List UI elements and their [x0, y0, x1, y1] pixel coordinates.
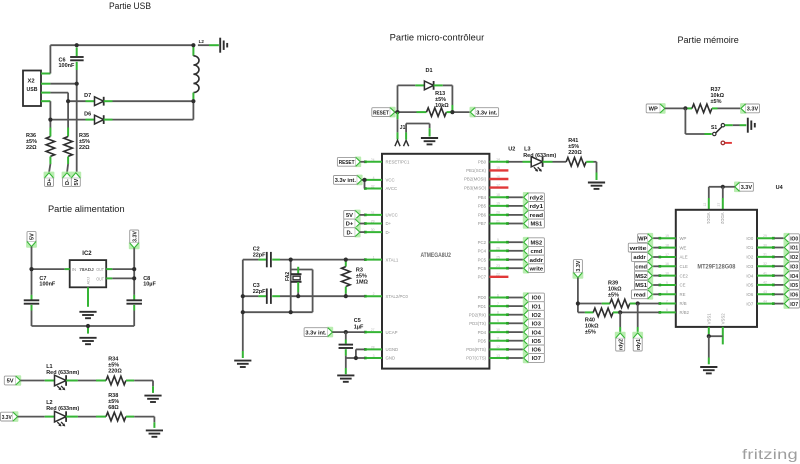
- svg-text:Red (633nm): Red (633nm): [46, 406, 79, 412]
- svg-text:29: 29: [763, 234, 767, 238]
- svg-text:IO4: IO4: [532, 330, 542, 336]
- svg-text:RE: RE: [680, 292, 686, 297]
- svg-text:ALE: ALE: [680, 255, 688, 260]
- svg-text:13: 13: [496, 354, 500, 358]
- svg-text:3.3V: 3.3V: [747, 107, 759, 113]
- svg-text:±5%: ±5%: [711, 99, 722, 105]
- svg-text:3.3v int.: 3.3v int.: [476, 110, 498, 116]
- svg-text:Partie micro-contrôleur: Partie micro-contrôleur: [390, 33, 485, 43]
- svg-text:5V: 5V: [7, 379, 14, 385]
- svg-text:8: 8: [497, 311, 499, 315]
- svg-text:28: 28: [371, 345, 375, 349]
- svg-text:IO1: IO1: [532, 304, 541, 310]
- svg-text:D7: D7: [84, 93, 91, 99]
- svg-text:IO0: IO0: [746, 236, 754, 241]
- svg-text:15: 15: [496, 166, 500, 170]
- svg-text:Partie USB: Partie USB: [109, 1, 151, 11]
- svg-text:D+: D+: [346, 222, 354, 228]
- svg-text:RESET/PC1: RESET/PC1: [386, 160, 410, 165]
- svg-text:PD2(RX): PD2(RX): [469, 312, 487, 317]
- svg-text:IO7: IO7: [532, 356, 541, 362]
- svg-text:OUT: OUT: [96, 267, 104, 272]
- svg-text:22Ω: 22Ω: [26, 145, 37, 151]
- svg-text:6: 6: [666, 308, 668, 312]
- svg-text:3.3V: 3.3V: [2, 415, 12, 421]
- svg-text:7: 7: [497, 302, 499, 306]
- svg-text:PD5: PD5: [478, 338, 487, 343]
- svg-text:PC2: PC2: [478, 240, 487, 245]
- svg-text:D-: D-: [65, 179, 71, 185]
- svg-text:100nF: 100nF: [59, 63, 76, 69]
- svg-text:PD7(CTS): PD7(CTS): [466, 356, 486, 361]
- svg-text:±5%: ±5%: [585, 329, 596, 335]
- svg-text:VDD1: VDD1: [706, 213, 711, 225]
- svg-text:RESET: RESET: [339, 160, 355, 166]
- svg-text:16: 16: [496, 175, 500, 179]
- svg-text:IN: IN: [72, 267, 76, 272]
- svg-text:UVCC: UVCC: [386, 213, 398, 218]
- svg-text:22Ω: 22Ω: [79, 145, 90, 151]
- svg-text:7: 7: [666, 299, 668, 303]
- svg-text:19: 19: [496, 202, 500, 206]
- svg-text:12: 12: [703, 203, 707, 207]
- svg-text:addr: addr: [633, 255, 646, 261]
- svg-text:3: 3: [373, 354, 375, 358]
- svg-text:FA2: FA2: [285, 272, 291, 281]
- svg-text:IO2: IO2: [746, 255, 754, 260]
- svg-text:rdy1: rdy1: [636, 339, 642, 350]
- svg-text:L2: L2: [199, 39, 205, 44]
- svg-text:17: 17: [665, 253, 669, 257]
- svg-text:X2: X2: [28, 79, 35, 85]
- svg-text:Red (633nm): Red (633nm): [46, 370, 79, 376]
- svg-text:Partie alimentation: Partie alimentation: [48, 204, 125, 214]
- svg-text:WP: WP: [680, 236, 687, 241]
- svg-text:USB: USB: [27, 87, 38, 93]
- svg-text:100nF: 100nF: [39, 282, 56, 288]
- svg-text:19: 19: [665, 234, 669, 238]
- svg-text:PB3(MISO): PB3(MISO): [464, 185, 487, 190]
- svg-text:U2: U2: [508, 147, 515, 153]
- svg-text:18: 18: [496, 193, 500, 197]
- svg-text:1µF: 1µF: [354, 324, 364, 330]
- svg-text:U4: U4: [776, 185, 784, 191]
- svg-text:78ADJ: 78ADJ: [79, 267, 94, 273]
- svg-text:rdy2: rdy2: [618, 339, 624, 350]
- svg-text:22pF: 22pF: [253, 252, 266, 258]
- svg-text:30: 30: [371, 228, 375, 232]
- svg-text:D-: D-: [346, 230, 352, 236]
- svg-text:cmd: cmd: [635, 265, 647, 271]
- svg-text:±5%: ±5%: [608, 292, 619, 298]
- svg-text:R/B: R/B: [680, 301, 687, 306]
- svg-text:44: 44: [763, 299, 767, 303]
- svg-text:23: 23: [496, 264, 500, 268]
- svg-text:1: 1: [373, 256, 375, 260]
- svg-text:31: 31: [371, 211, 375, 215]
- svg-text:ADJ: ADJ: [86, 277, 91, 285]
- svg-text:GND: GND: [386, 356, 396, 361]
- svg-text:IO4: IO4: [746, 273, 754, 278]
- svg-text:2: 2: [373, 292, 375, 296]
- svg-text:25: 25: [496, 255, 500, 259]
- svg-text:9: 9: [497, 319, 499, 323]
- svg-text:20: 20: [496, 211, 500, 215]
- svg-text:XTAL2/PC0: XTAL2/PC0: [386, 294, 409, 299]
- svg-text:WE: WE: [680, 245, 687, 250]
- svg-text:IO2: IO2: [790, 255, 798, 261]
- svg-text:32: 32: [763, 262, 767, 266]
- svg-text:IO7: IO7: [790, 302, 798, 308]
- svg-text:IO1: IO1: [790, 246, 798, 252]
- svg-text:IO6: IO6: [790, 293, 798, 299]
- svg-text:rdy2: rdy2: [530, 196, 544, 202]
- svg-text:Partie mémoire: Partie mémoire: [678, 35, 739, 45]
- svg-text:PB6: PB6: [478, 213, 487, 218]
- svg-text:22pF: 22pF: [253, 289, 266, 295]
- svg-text:read: read: [634, 293, 647, 299]
- svg-text:D6: D6: [84, 112, 91, 118]
- svg-text:read: read: [530, 213, 544, 219]
- svg-text:68Ω: 68Ω: [108, 405, 119, 411]
- svg-text:10: 10: [665, 271, 669, 275]
- svg-text:OUT: OUT: [96, 277, 104, 282]
- svg-text:5V: 5V: [346, 213, 353, 219]
- svg-text:IO3: IO3: [790, 264, 798, 270]
- svg-text:MS1: MS1: [635, 283, 647, 289]
- svg-text:PB1(SCK): PB1(SCK): [466, 168, 486, 173]
- svg-text:12: 12: [496, 345, 500, 349]
- svg-text:write: write: [528, 266, 543, 272]
- svg-text:UGND: UGND: [386, 347, 399, 352]
- svg-text:IO3: IO3: [746, 264, 754, 269]
- svg-text:ATMEGA8U2: ATMEGA8U2: [420, 252, 451, 259]
- svg-text:26: 26: [496, 247, 500, 251]
- svg-text:WP: WP: [649, 107, 658, 113]
- svg-text:PC4: PC4: [478, 249, 487, 254]
- svg-text:rdy1: rdy1: [530, 204, 544, 210]
- svg-text:14: 14: [496, 158, 500, 162]
- svg-text:PB4: PB4: [478, 195, 487, 200]
- svg-text:fritzing: fritzing: [742, 447, 798, 462]
- svg-text:5V: 5V: [74, 178, 80, 185]
- svg-text:22: 22: [496, 273, 500, 277]
- svg-text:6: 6: [497, 293, 499, 297]
- svg-text:IO6: IO6: [746, 292, 754, 297]
- svg-text:MS1: MS1: [530, 222, 542, 228]
- svg-text:CE: CE: [680, 283, 686, 288]
- svg-text:17: 17: [496, 183, 500, 187]
- svg-text:XTAL1: XTAL1: [386, 257, 399, 262]
- svg-text:11: 11: [496, 337, 500, 341]
- svg-text:8: 8: [666, 290, 668, 294]
- svg-text:RESET: RESET: [373, 110, 389, 116]
- svg-text:27: 27: [371, 328, 375, 332]
- svg-text:3.3v int.: 3.3v int.: [305, 330, 327, 336]
- svg-text:VSS1: VSS1: [707, 313, 712, 325]
- svg-text:PB2(MOSI): PB2(MOSI): [464, 177, 487, 182]
- svg-text:4: 4: [373, 176, 375, 180]
- svg-text:D1: D1: [426, 68, 433, 74]
- svg-text:PD0: PD0: [478, 295, 487, 300]
- svg-text:IO6: IO6: [532, 348, 541, 354]
- svg-text:PD6(RTS): PD6(RTS): [466, 347, 486, 352]
- svg-text:PC7: PC7: [478, 275, 487, 280]
- svg-text:WP: WP: [638, 236, 647, 242]
- svg-text:PB5: PB5: [478, 204, 487, 209]
- svg-text:IO0: IO0: [532, 296, 541, 302]
- svg-text:220Ω: 220Ω: [568, 150, 582, 156]
- svg-text:PB0: PB0: [478, 160, 487, 165]
- svg-text:PD3(TX): PD3(TX): [469, 321, 486, 326]
- svg-text:D+: D+: [47, 179, 53, 186]
- svg-text:VSS2: VSS2: [721, 313, 726, 325]
- svg-text:29: 29: [371, 220, 375, 224]
- svg-text:IO0: IO0: [790, 236, 798, 242]
- svg-text:±5%: ±5%: [568, 144, 579, 150]
- svg-text:PC5: PC5: [478, 257, 487, 262]
- svg-text:CLE: CLE: [680, 264, 688, 269]
- svg-text:42: 42: [763, 281, 767, 285]
- svg-text:VCC: VCC: [386, 178, 395, 183]
- svg-text:1MΩ: 1MΩ: [356, 279, 369, 285]
- svg-text:Red (633nm): Red (633nm): [523, 153, 556, 159]
- svg-text:IO5: IO5: [532, 339, 541, 345]
- svg-text:10: 10: [496, 328, 500, 332]
- svg-text:D-: D-: [386, 230, 391, 235]
- svg-text:37: 37: [717, 203, 721, 207]
- svg-text:9: 9: [666, 281, 668, 285]
- svg-text:PC6: PC6: [478, 266, 487, 271]
- svg-text:41: 41: [763, 271, 767, 275]
- svg-text:IO3: IO3: [532, 322, 541, 328]
- svg-text:3.3V: 3.3V: [132, 231, 138, 242]
- svg-text:5: 5: [497, 238, 499, 242]
- svg-text:3.3V: 3.3V: [576, 260, 582, 271]
- svg-text:21: 21: [496, 219, 500, 223]
- svg-text:L3: L3: [524, 147, 530, 153]
- svg-text:IO4: IO4: [790, 274, 799, 280]
- svg-text:UCAP: UCAP: [386, 330, 398, 335]
- svg-text:220Ω: 220Ω: [108, 369, 122, 375]
- svg-text:43: 43: [763, 290, 767, 294]
- svg-text:R/B2: R/B2: [680, 310, 690, 315]
- svg-text:S1: S1: [711, 125, 717, 131]
- svg-text:CE2: CE2: [680, 273, 689, 278]
- svg-text:31: 31: [763, 253, 767, 257]
- svg-text:IO5: IO5: [746, 283, 754, 288]
- svg-text:PB7: PB7: [478, 221, 487, 226]
- svg-text:D+: D+: [386, 221, 392, 226]
- svg-text:16: 16: [665, 262, 669, 266]
- svg-text:IO5: IO5: [790, 283, 798, 289]
- svg-text:IO2: IO2: [532, 313, 541, 319]
- svg-text:24: 24: [371, 158, 375, 162]
- svg-text:IO1: IO1: [746, 245, 754, 250]
- svg-text:PD4: PD4: [478, 330, 487, 335]
- svg-text:addr: addr: [530, 258, 544, 264]
- svg-text:5V: 5V: [30, 233, 36, 240]
- svg-text:MS2: MS2: [635, 274, 647, 280]
- svg-text:10kΩ: 10kΩ: [435, 103, 449, 109]
- svg-text:IO7: IO7: [746, 301, 754, 306]
- svg-text:AVCC: AVCC: [386, 186, 398, 191]
- svg-text:cmd: cmd: [530, 249, 542, 255]
- svg-text:PD1: PD1: [478, 304, 487, 309]
- svg-text:3.3v int.: 3.3v int.: [335, 178, 357, 184]
- svg-text:write: write: [628, 246, 646, 252]
- svg-text:32: 32: [371, 185, 375, 189]
- svg-text:MT29F128G08: MT29F128G08: [697, 265, 736, 271]
- svg-text:10µF: 10µF: [143, 282, 156, 288]
- svg-text:C5: C5: [354, 318, 361, 324]
- svg-text:30: 30: [763, 243, 767, 247]
- svg-text:MS2: MS2: [530, 240, 542, 246]
- svg-text:18: 18: [665, 243, 669, 247]
- svg-text:VDD2: VDD2: [720, 213, 725, 225]
- svg-text:3.3V: 3.3V: [741, 185, 753, 191]
- svg-text:IC2: IC2: [82, 251, 92, 257]
- svg-text:J1: J1: [400, 125, 406, 131]
